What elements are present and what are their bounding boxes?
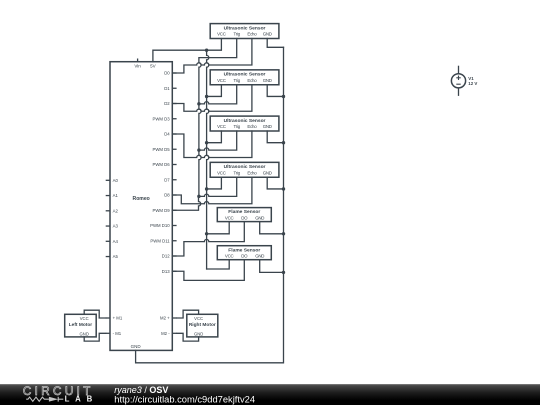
node Trig rail junction sensor2: [197, 102, 200, 105]
svg-text:12 V: 12 V: [468, 81, 477, 86]
svg-text:GND: GND: [263, 32, 272, 37]
motor M_right Right Motor: [187, 314, 218, 337]
ultrasonic sensor 1: [210, 24, 279, 39]
CircuitLab logo LAB: [65, 395, 98, 404]
svg-text:GND: GND: [255, 215, 264, 220]
CircuitLab logo diode: [49, 397, 63, 402]
svg-text:Right Motor: Right Motor: [189, 322, 216, 328]
svg-text:http://circuitlab.com/c9dd7ekj: http://circuitlab.com/c9dd7ekjftv24: [114, 395, 255, 405]
wire Right Motor GND to M2-: [177, 333, 199, 341]
svg-text:A4: A4: [113, 239, 119, 244]
motor M_left Left Motor: [65, 314, 97, 337]
Romeo motor pins M1: [106, 316, 123, 336]
svg-text:5V: 5V: [150, 64, 156, 69]
Romeo analog pins A0-A5: [106, 178, 119, 259]
wire D8 to sensor4 Echo: [172, 177, 252, 204]
ultrasonic sensor 4: [210, 162, 279, 177]
Romeo pin 5V label: [150, 64, 156, 69]
footer url: [114, 395, 255, 405]
wire sensor2 VCC tap: [207, 85, 222, 97]
svg-text:GND: GND: [263, 124, 272, 129]
svg-text:GND: GND: [255, 254, 264, 259]
wire D0 to sensor1 Echo: [172, 39, 252, 74]
svg-text:D7: D7: [164, 177, 170, 182]
wire VCC rail vertical: [207, 50, 209, 269]
wire sensor3 GND tap: [267, 131, 283, 143]
node GND rail junction flame sensor1: [282, 232, 285, 235]
svg-text:VCC: VCC: [217, 170, 226, 175]
wire PWM D9 to Trig rail: [172, 196, 200, 210]
svg-text:GND: GND: [80, 331, 89, 336]
svg-text:Trig: Trig: [233, 170, 240, 175]
svg-text:VCC: VCC: [80, 316, 89, 321]
footer author line ryane3 / OSV: [114, 385, 168, 395]
svg-text:VCC: VCC: [225, 215, 234, 220]
svg-text:VCC: VCC: [217, 32, 226, 37]
svg-text:VCC: VCC: [225, 254, 234, 259]
svg-text:PWM D5: PWM D5: [152, 147, 170, 152]
node sensor4 VCC junction: [205, 187, 208, 190]
wire Trig rail from sensor1 Trig: [199, 39, 237, 197]
svg-text:A0: A0: [113, 178, 119, 183]
svg-text:D4: D4: [164, 132, 170, 137]
wire flame sensor1 GND tap: [260, 222, 284, 234]
wire sensor3 VCC tap: [207, 131, 222, 143]
svg-text:PWM D11: PWM D11: [150, 238, 170, 243]
wire sensor4 VCC tap: [207, 177, 222, 189]
svg-text:GND: GND: [263, 170, 272, 175]
svg-text:D0: D0: [164, 71, 170, 76]
wire Left Motor VCC to +M1: [84, 310, 106, 318]
svg-text:D8: D8: [164, 193, 170, 198]
node GND rail junction sensor4: [282, 187, 285, 190]
CircuitLab logo resistor zigzag: [26, 397, 49, 401]
svg-text:GND: GND: [263, 78, 272, 83]
wire 5V supply to VCC rail and sensor1 VCC: [153, 39, 222, 62]
svg-text:Vin: Vin: [134, 64, 141, 69]
svg-text:Echo: Echo: [247, 124, 257, 129]
svg-text:GND: GND: [131, 344, 142, 349]
node GND rail junction sensor3: [282, 141, 285, 144]
wire sensor3 Trig tap: [199, 131, 237, 150]
svg-text:Trig: Trig: [233, 32, 240, 37]
svg-text:Ultrasonic Sensor: Ultrasonic Sensor: [224, 164, 266, 170]
wire D4 to sensor3 Echo: [172, 131, 252, 158]
svg-text:PWM D3: PWM D3: [152, 116, 170, 121]
flame sensor 1: [217, 208, 271, 222]
node flame sensor1 VCC junction: [205, 232, 208, 235]
wire Left Motor GND to -M1: [84, 333, 106, 341]
svg-text:+ M1: + M1: [113, 316, 123, 321]
svg-text:A3: A3: [113, 224, 119, 229]
node 5V VCC rail junction: [205, 49, 208, 52]
svg-text:Ultrasonic Sensor: Ultrasonic Sensor: [224, 118, 266, 124]
svg-text:VCC: VCC: [217, 124, 226, 129]
node Trig rail junction sensor3: [197, 148, 200, 151]
wire flame sensor2 GND tap: [260, 260, 284, 273]
voltage source V1 12V: [451, 66, 477, 96]
Romeo digital pins D0-D13: [150, 71, 176, 274]
svg-text:A1: A1: [113, 193, 119, 198]
wire GND rail to Romeo GND: [136, 47, 284, 363]
node GND rail junction sensor2: [282, 95, 285, 98]
wire flame sensor1 DO to D12: [172, 222, 244, 256]
svg-text:Ultrasonic Sensor: Ultrasonic Sensor: [224, 72, 266, 78]
wire flame sensor2 VCC tap: [207, 260, 230, 269]
wire sensor4 GND tap: [267, 177, 283, 189]
svg-text:D12: D12: [162, 254, 170, 259]
wire sensor2 GND tap: [267, 85, 283, 97]
wire sensor1 GND to GND rail: [267, 39, 283, 48]
svg-text:D2: D2: [164, 101, 170, 106]
ultrasonic sensor 2: [210, 70, 279, 85]
ultrasonic sensor 3: [210, 116, 279, 131]
node sensor2 VCC junction: [205, 95, 208, 98]
svg-text:Ultrasonic Sensor: Ultrasonic Sensor: [224, 25, 266, 31]
svg-text:PWM D10: PWM D10: [150, 223, 170, 228]
svg-text:DO: DO: [241, 254, 248, 259]
svg-text:M2 +: M2 +: [160, 316, 170, 321]
node sensor3 VCC junction: [205, 141, 208, 144]
svg-text:A5: A5: [113, 254, 119, 259]
wire flame sensor2 DO to D13: [172, 260, 244, 281]
wire Right Motor VCC to M2+: [177, 310, 199, 318]
flame sensor 2: [217, 246, 271, 260]
svg-text:Echo: Echo: [247, 32, 257, 37]
svg-text:GND: GND: [194, 331, 203, 336]
node Trig rail junction sensor4: [197, 195, 200, 198]
svg-text:VCC: VCC: [194, 316, 203, 321]
svg-text:Trig: Trig: [233, 124, 240, 129]
svg-text:Trig: Trig: [233, 78, 240, 83]
svg-text:D1: D1: [164, 86, 170, 91]
CircuitLab logo wordmark CIRCUIT: [23, 385, 94, 398]
svg-text:Echo: Echo: [247, 78, 257, 83]
Romeo pin GND label: [131, 344, 142, 349]
wire sensor4 Trig tap: [199, 177, 237, 196]
svg-text:PWM D6: PWM D6: [152, 162, 170, 167]
svg-text:Left Motor: Left Motor: [69, 322, 93, 328]
svg-text:- M1: - M1: [113, 331, 122, 336]
svg-text:Flame Sensor: Flame Sensor: [228, 209, 260, 215]
svg-text:D13: D13: [162, 269, 170, 274]
wire D2 to sensor2 Echo: [172, 85, 252, 112]
svg-text:DO: DO: [241, 215, 248, 220]
svg-text:Echo: Echo: [247, 170, 257, 175]
svg-text:LAB: LAB: [65, 395, 98, 404]
Romeo pin Vin: [134, 59, 141, 69]
microcontroller board Romeo U1: [110, 62, 172, 351]
Romeo motor pins M2: [160, 316, 177, 336]
svg-text:PWM D9: PWM D9: [152, 208, 170, 213]
svg-text:Flame Sensor: Flame Sensor: [228, 247, 260, 253]
svg-text:VCC: VCC: [217, 78, 226, 83]
svg-text:M2 -: M2 -: [161, 331, 170, 336]
node GND rail junction flame sensor2: [282, 271, 285, 274]
svg-text:ryane3 / OSV: ryane3 / OSV: [114, 385, 168, 395]
svg-text:Romeo: Romeo: [133, 196, 150, 202]
wire sensor2 Trig tap: [199, 85, 237, 104]
wire flame sensor1 VCC tap: [207, 222, 230, 234]
svg-text:A2: A2: [113, 208, 119, 213]
